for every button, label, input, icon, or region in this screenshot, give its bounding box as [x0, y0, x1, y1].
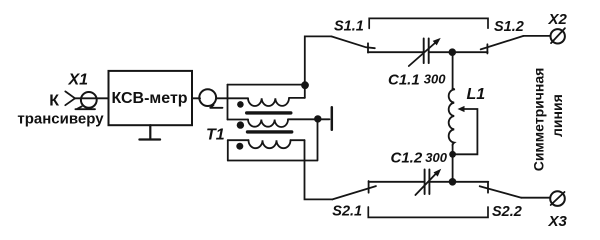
svg-text:S1.1: S1.1	[334, 18, 364, 34]
svg-text:К: К	[49, 93, 59, 110]
svg-text:L1: L1	[467, 86, 486, 103]
svg-text:X3: X3	[548, 213, 568, 230]
svg-text:S2.1: S2.1	[332, 203, 362, 219]
svg-text:300: 300	[425, 150, 447, 165]
svg-text:T1: T1	[206, 127, 225, 144]
svg-text:C1.1: C1.1	[388, 72, 420, 89]
svg-text:Симметричная: Симметричная	[531, 68, 547, 172]
svg-text:КСВ-метр: КСВ-метр	[111, 90, 187, 107]
svg-text:300: 300	[424, 72, 446, 87]
svg-text:S1.2: S1.2	[494, 19, 524, 35]
svg-text:линия: линия	[549, 94, 565, 137]
svg-text:трансиверу: трансиверу	[17, 111, 104, 128]
svg-text:X1: X1	[68, 71, 89, 88]
svg-text:C1.2: C1.2	[391, 150, 423, 167]
svg-text:S2.2: S2.2	[492, 204, 522, 220]
svg-text:X2: X2	[548, 11, 568, 28]
